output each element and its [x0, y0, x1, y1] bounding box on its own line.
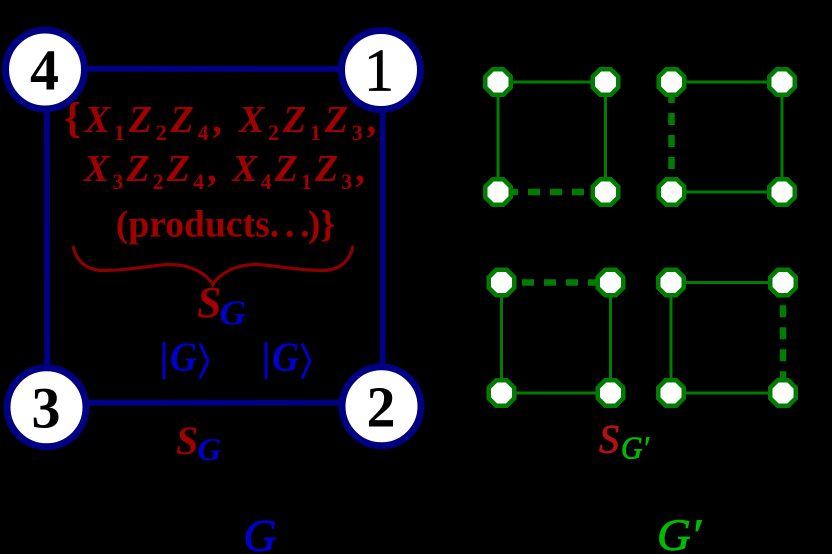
svg-text:G: G	[272, 334, 299, 380]
node copy1 top-left	[485, 69, 511, 95]
wire top edge	[498, 81, 606, 84]
wire top edge	[672, 81, 783, 84]
node copy2 top-right	[769, 69, 795, 95]
svg-text:G: G	[220, 294, 247, 333]
wire left edge	[670, 283, 673, 394]
svg-text:G′: G′	[657, 511, 702, 554]
svg-text:G: G	[198, 431, 222, 467]
node copy4 bottom-left	[658, 380, 684, 406]
svg-text:S: S	[197, 278, 221, 327]
node 3	[7, 368, 86, 447]
node copy2 bottom-right	[769, 179, 795, 205]
wire edge 4-1 (top of graph G)	[45, 66, 381, 72]
graph G' copy 2 (top-right)	[659, 69, 795, 205]
node copy3 top-left	[489, 270, 515, 296]
svg-text:S: S	[176, 418, 198, 463]
wire edge 3-4 (left of graph G)	[44, 70, 50, 408]
svg-text:X3Z2Z4, X4Z1Z3,: X3Z2Z4, X4Z1Z3,	[83, 148, 368, 194]
wire left edge	[500, 283, 503, 394]
wire left edge (dashed)	[668, 82, 675, 192]
wire top edge	[671, 281, 783, 284]
node copy2 top-left	[659, 69, 685, 95]
underbrace below stabilizer list	[73, 246, 353, 285]
wire top edge (dashed)	[502, 279, 611, 286]
node copy1 top-right	[593, 69, 619, 95]
svg-text:G′: G′	[621, 430, 650, 466]
graph G' copy 3 (bottom-left)	[489, 270, 624, 406]
node copy4 top-left	[658, 270, 684, 296]
wire right edge (dashed)	[780, 283, 787, 394]
svg-text:{X1Z2Z4, X2Z1Z3,: {X1Z2Z4, X2Z1Z3,	[64, 95, 380, 145]
wire bottom edge (dashed)	[498, 189, 606, 196]
ket |G> right	[266, 334, 310, 380]
wire edge 2-3 (bottom of graph G)	[47, 400, 382, 406]
svg-text:4: 4	[30, 38, 59, 103]
ket |G> left	[164, 334, 208, 380]
wire edge 1-2 (right of graph G)	[380, 70, 386, 406]
wire bottom edge	[671, 392, 783, 395]
wire right edge	[781, 82, 784, 192]
svg-text:2: 2	[367, 374, 396, 439]
svg-text:3: 3	[32, 375, 61, 440]
node copy3 bottom-left	[489, 380, 515, 406]
node copy3 top-right	[598, 270, 624, 296]
node copy1 bottom-left	[485, 179, 511, 205]
svg-text:G: G	[170, 334, 197, 380]
node 1	[342, 31, 421, 110]
node copy3 bottom-right	[598, 380, 624, 406]
wire left edge	[497, 82, 500, 192]
svg-text:S: S	[599, 417, 619, 462]
wire bottom edge	[502, 392, 611, 395]
wire bottom edge	[672, 191, 783, 194]
graph G' copy 4 (bottom-right)	[658, 270, 796, 406]
value label stabilizer list line 3: (products...)}	[116, 203, 335, 245]
node copy2 bottom-left	[659, 179, 685, 205]
svg-text:(products. . .)}: (products. . .)}	[116, 203, 335, 245]
node copy1 bottom-right	[593, 179, 619, 205]
svg-text:G: G	[244, 511, 277, 554]
wire right edge	[609, 283, 612, 394]
node copy4 bottom-right	[770, 380, 796, 406]
svg-text:1: 1	[364, 38, 394, 104]
node 4	[6, 30, 85, 109]
node 2	[342, 367, 421, 446]
wire right edge	[604, 82, 607, 192]
graph G' copy 1 (top-left)	[485, 69, 618, 205]
node copy4 top-right	[770, 270, 796, 296]
